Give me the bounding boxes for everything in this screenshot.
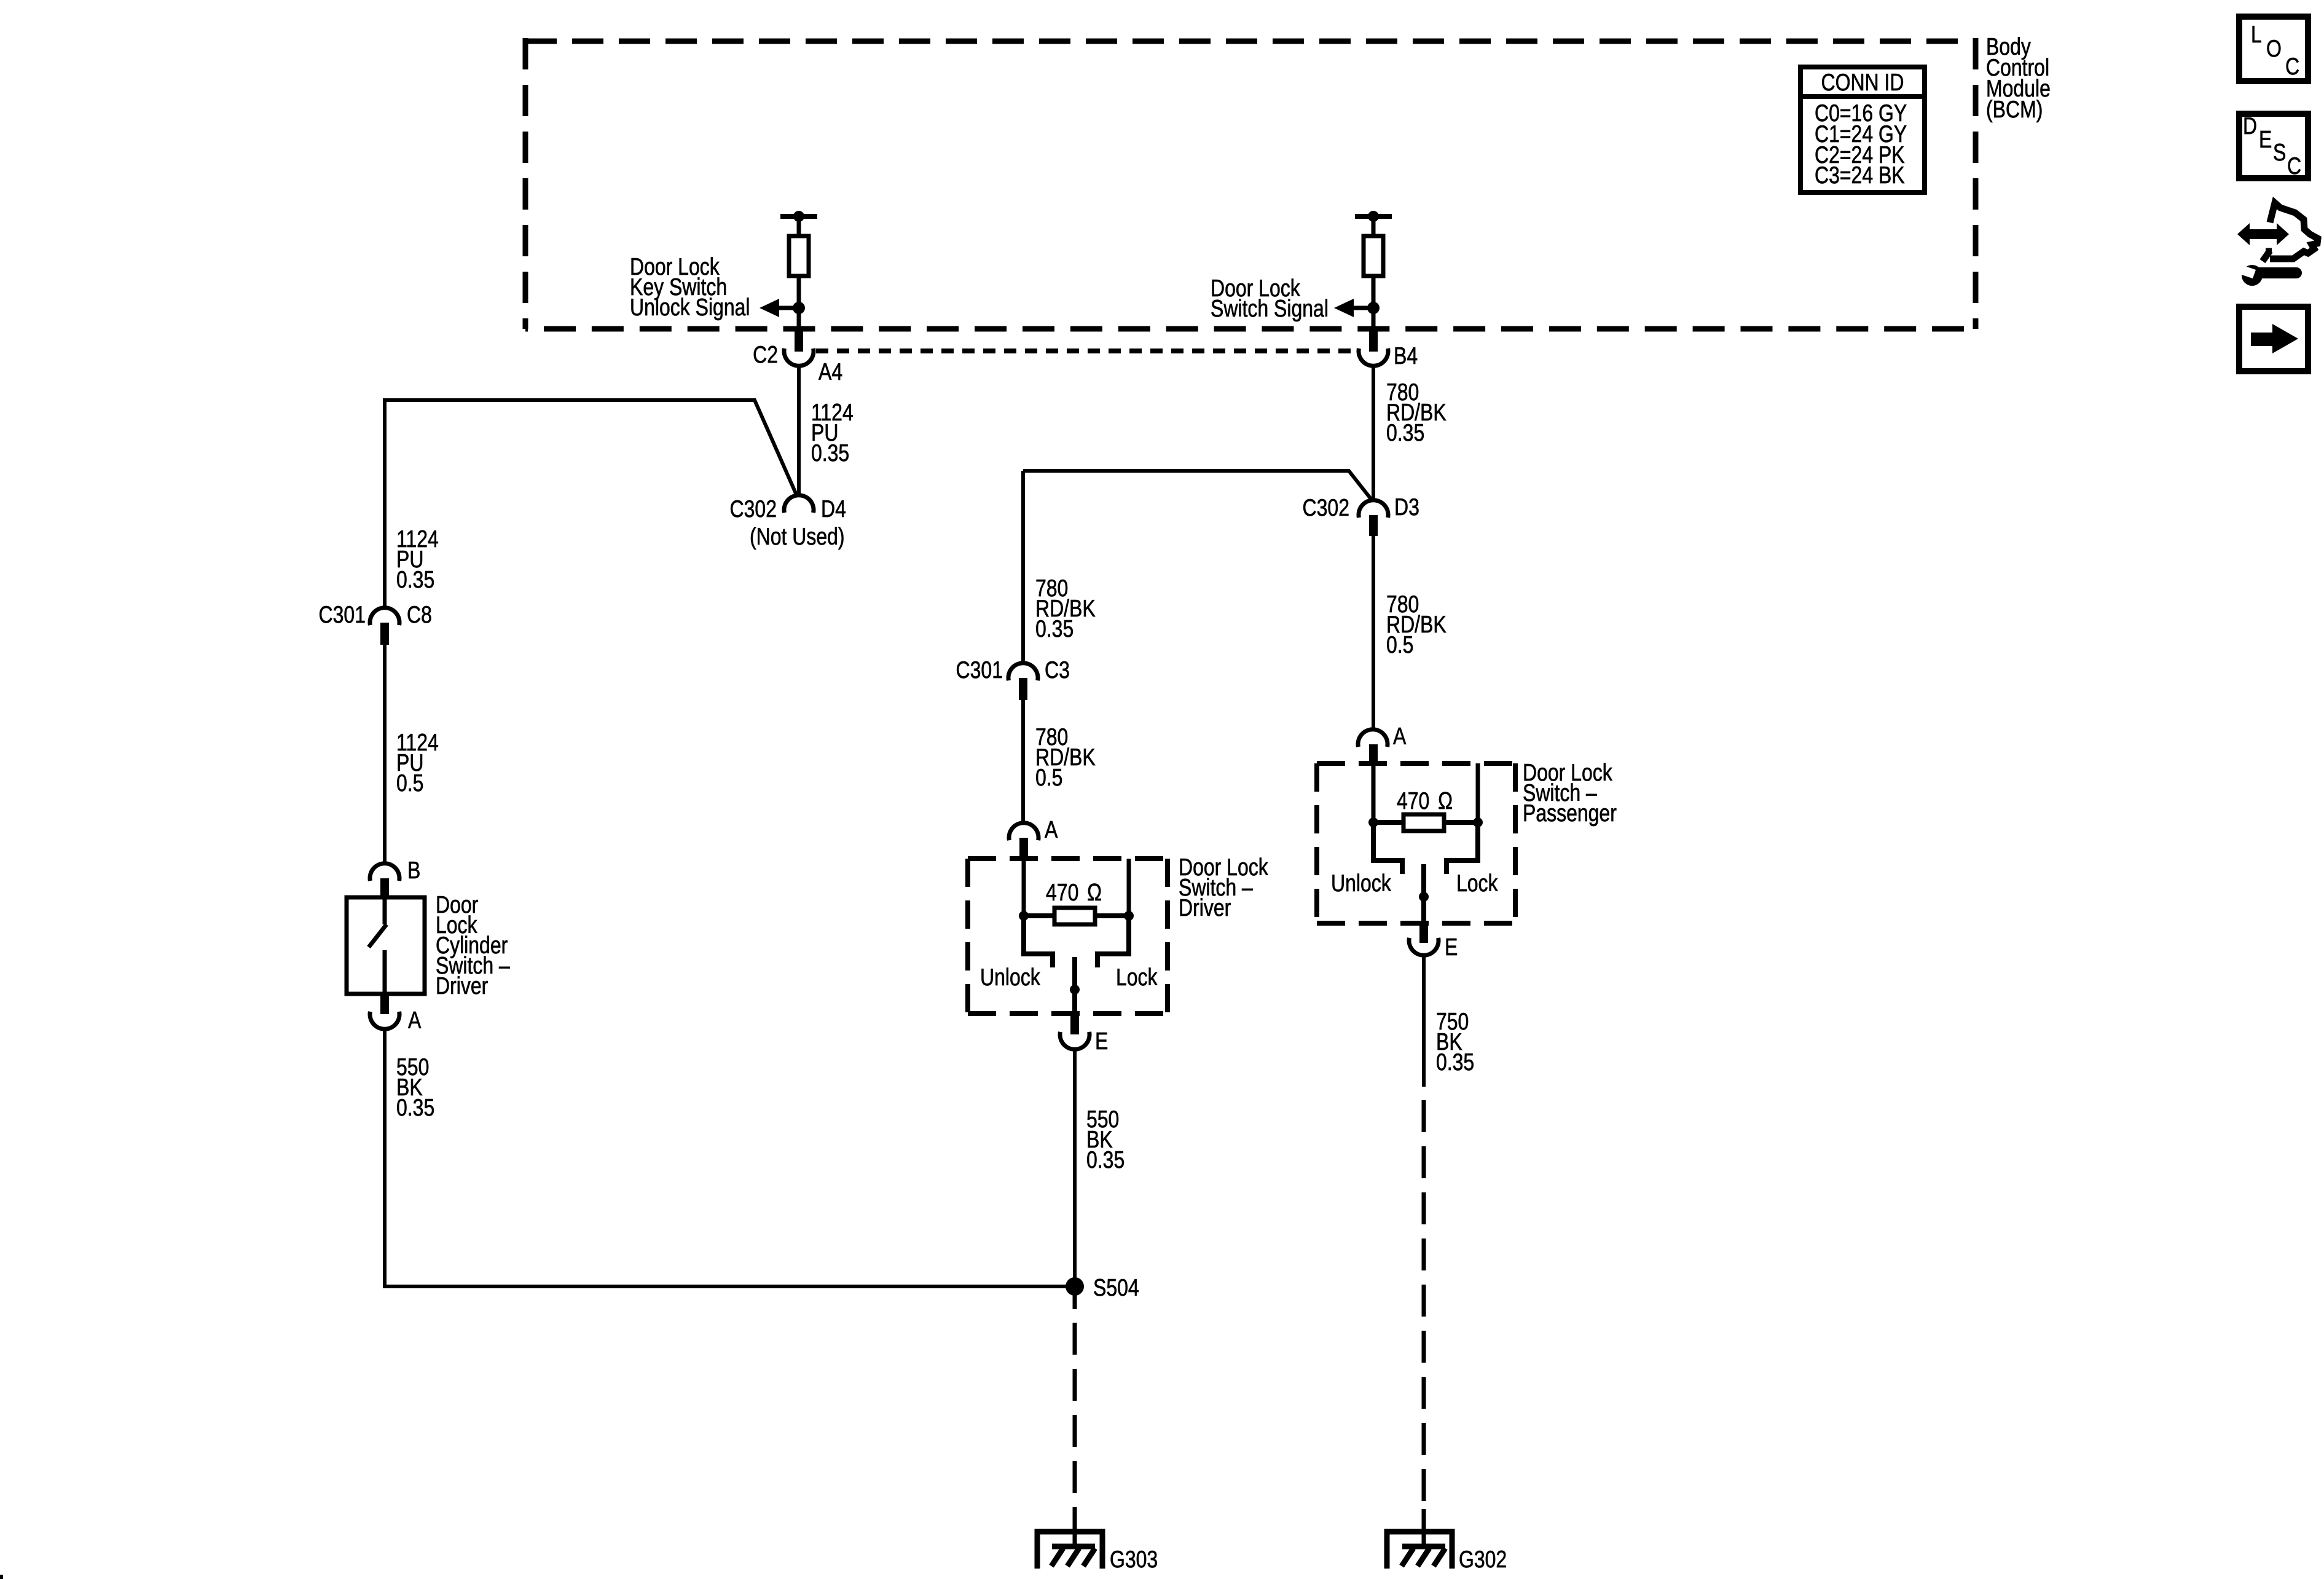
svg-text:Unlock: Unlock — [1331, 870, 1391, 897]
svg-text:A4: A4 — [819, 358, 842, 385]
driver switch pole dot — [1070, 985, 1080, 994]
Door Lock Cylinder Switch - Driver box — [347, 897, 425, 994]
label 1124 PU 0.35 (left wire upper) — [396, 526, 439, 593]
pull-up resistor (Door Lock Key Switch Unlock Signal) inside BCM — [779, 216, 817, 328]
right-arrow reference box icon — [2239, 307, 2308, 371]
pin A below cylinder switch — [380, 994, 389, 1014]
svg-text:Switch Signal: Switch Signal — [1211, 295, 1329, 322]
svg-text:C3=24 BK: C3=24 BK — [1815, 162, 1905, 189]
wire 780 RD/BK 0.35 left vertical to C301 C3 — [1021, 471, 1025, 664]
svg-text:D: D — [2243, 112, 2257, 140]
pin B into cylinder switch — [380, 878, 389, 897]
svg-text:D3: D3 — [1394, 494, 1419, 521]
svg-text:B4: B4 — [1394, 342, 1418, 369]
svg-text:0.35: 0.35 — [396, 566, 434, 593]
svg-text:470 Ω: 470 Ω — [1046, 879, 1102, 906]
label Door Lock Cylinder Switch - Driver — [436, 891, 510, 999]
cylinder switch blade — [369, 924, 387, 947]
svg-text:0.35: 0.35 — [396, 1094, 434, 1121]
pin E below driver switch — [1070, 1014, 1079, 1034]
connector C301 C8 pin — [380, 623, 389, 645]
arrowhead Door Lock Key Switch Unlock Signal — [760, 299, 779, 317]
driver switch left leg — [1022, 859, 1026, 916]
wire driver switch circuit: across and diagonal into C302 D3 — [1023, 471, 1372, 500]
label Door Lock Switch Signal — [1211, 275, 1329, 322]
svg-text:0.35: 0.35 — [811, 439, 849, 467]
label Door Lock Switch - Driver — [1179, 854, 1268, 921]
svg-text:G303: G303 — [1110, 1546, 1158, 1573]
terminal E cup of driver switch — [1060, 1032, 1089, 1049]
label 780 RD/BK 0.35 (driver) — [1035, 575, 1096, 642]
terminal E cup of passenger switch — [1409, 938, 1439, 955]
Door Lock Switch - Driver dashed box — [968, 859, 1168, 1014]
svg-text:Lock: Lock — [1456, 870, 1498, 897]
driver switch bus dots — [1019, 911, 1029, 921]
junction dot left arrow — [793, 302, 805, 314]
svg-text:A: A — [1045, 816, 1058, 843]
wire 1124 PU 0.35 from A4 down to C302 D4 — [797, 366, 801, 497]
svg-text:0.35: 0.35 — [1386, 419, 1424, 446]
wire 750 BK 0.35 from passenger E — [1422, 955, 1426, 1087]
dashed wire to G302 — [1422, 1100, 1426, 1509]
label 550 BK 0.35 (left) — [396, 1053, 434, 1121]
splice S504 — [1066, 1277, 1084, 1296]
svg-text:G302: G302 — [1459, 1546, 1507, 1573]
pull-up resistor (Door Lock Switch Signal) inside BCM — [1354, 216, 1392, 328]
wire 550 BK 0.35 from driver E to S504 — [1073, 1049, 1077, 1286]
label Door Lock Key Switch Unlock Signal — [630, 253, 750, 321]
svg-text:0.35: 0.35 — [1035, 615, 1074, 642]
cylinder switch contact lower — [383, 950, 387, 994]
wire stub into G302 — [1422, 1509, 1426, 1547]
connector C302 terminal D4 dome (not used) — [784, 495, 814, 513]
label 780 RD/BK 0.5 (driver) — [1035, 723, 1096, 791]
svg-text:O: O — [2266, 35, 2282, 62]
driver switch lock contact — [1097, 916, 1129, 967]
connector C302 D3 pin — [1369, 515, 1378, 536]
svg-text:A: A — [408, 1007, 422, 1034]
BCM module dashed box — [525, 38, 1976, 329]
svg-text:0.35: 0.35 — [1086, 1146, 1125, 1173]
svg-text:C2: C2 — [753, 341, 778, 368]
svg-text:0.35: 0.35 — [1436, 1049, 1474, 1076]
connector C301 terminal C8 dome — [370, 608, 399, 625]
DESC reference box icon — [2239, 112, 2308, 179]
dashed wire S504 to G303 — [1073, 1286, 1077, 1309]
svg-text:E: E — [1095, 1028, 1108, 1055]
svg-text:Driver: Driver — [1179, 894, 1231, 921]
svg-text:E: E — [1445, 934, 1458, 961]
label Door Lock Switch - Passenger — [1523, 759, 1617, 827]
wire 780 RD/BK 0.5 from D3 to passenger switch A — [1372, 536, 1375, 730]
svg-text:C: C — [2285, 53, 2299, 80]
svg-text:E: E — [2259, 126, 2272, 153]
svg-text:C302: C302 — [1303, 494, 1349, 521]
svg-text:Unlock: Unlock — [980, 964, 1040, 991]
node dot on T-bar left — [793, 211, 804, 222]
svg-text:D4: D4 — [821, 495, 846, 522]
svg-text:C301: C301 — [956, 656, 1003, 683]
wrench — [2242, 265, 2263, 286]
cylinder switch contact upper — [383, 897, 387, 924]
connector C2 terminal A4 cup — [784, 348, 814, 366]
svg-text:S504: S504 — [1093, 1274, 1139, 1301]
passenger switch lock contact — [1447, 822, 1478, 874]
svg-text:A: A — [1393, 723, 1407, 750]
connector C301 C3 pin — [1019, 678, 1027, 700]
passenger switch right leg — [1476, 763, 1480, 822]
passenger switch pole — [1421, 864, 1426, 923]
label 750 BK 0.35 — [1436, 1008, 1474, 1076]
driver switch resistor 470 ohm — [1054, 908, 1095, 924]
svg-text:CONN ID: CONN ID — [1821, 69, 1904, 96]
svg-text:Unlock Signal: Unlock Signal — [630, 294, 750, 321]
svg-text:(Not Used): (Not Used) — [750, 523, 845, 550]
wire 550 BK 0.35 from cylinder A down and across to S504 — [385, 1028, 1072, 1286]
connector C302 terminal D3 dome — [1359, 500, 1388, 518]
double arrow — [2237, 223, 2289, 245]
svg-text:0.5: 0.5 — [1035, 764, 1062, 791]
connector C2 pin (BCM side) — [795, 328, 803, 352]
svg-text:C3: C3 — [1045, 656, 1070, 683]
wire 780 RD/BK 0.5 from C3 to driver switch A — [1021, 700, 1025, 824]
ground G303 — [1037, 1532, 1102, 1569]
driver switch right leg — [1127, 859, 1131, 916]
ground G302 — [1387, 1532, 1452, 1569]
terminal A dome of driver door lock switch — [1009, 823, 1038, 840]
svg-text:0.5: 0.5 — [1386, 631, 1413, 658]
terminal A cup of cylinder switch — [370, 1012, 399, 1029]
LOC reference box icon — [2239, 17, 2308, 81]
driver switch bus — [1024, 913, 1054, 918]
diagnostic dog-head and wrench icon — [2237, 203, 2318, 286]
passenger switch bus — [1373, 820, 1403, 825]
label 1124 PU 0.5 — [396, 729, 439, 797]
svg-text:470 Ω: 470 Ω — [1397, 787, 1453, 814]
wire 1124 PU 0.5 from C8 to cylinder switch B — [383, 645, 387, 864]
terminal A dome of passenger door lock switch — [1358, 730, 1388, 747]
svg-text:C302: C302 — [730, 495, 777, 522]
svg-text:0.5: 0.5 — [396, 770, 423, 797]
svg-text:Lock: Lock — [1116, 964, 1158, 991]
svg-text:S: S — [2273, 139, 2286, 166]
node dot on T-bar right — [1368, 211, 1379, 222]
svg-text:Passenger: Passenger — [1523, 800, 1617, 827]
passenger switch bus dots — [1368, 817, 1378, 827]
driver switch pole — [1072, 957, 1077, 1014]
junction dot right arrow — [1367, 302, 1380, 314]
passenger switch pole dot — [1419, 892, 1429, 902]
label 780 RD/BK 0.5 (passenger) — [1386, 591, 1447, 658]
stray mark bottom-left — [0, 1575, 3, 1579]
passenger switch resistor 470 ohm — [1403, 814, 1444, 831]
svg-text:C301: C301 — [319, 601, 366, 628]
CONN ID table — [1800, 67, 1925, 192]
terminal B dome of cylinder switch — [370, 864, 399, 881]
connector B4 pin (BCM side) — [1369, 328, 1378, 352]
svg-text:C: C — [2287, 152, 2301, 179]
wire 780 RD/BK 0.35 from B4 down to C302 D3 — [1372, 366, 1375, 502]
svg-text:Driver: Driver — [436, 972, 488, 999]
Door Lock Switch - Passenger dashed box — [1317, 763, 1515, 923]
label 780 RD/BK 0.35 (B4 segment) — [1386, 379, 1447, 446]
svg-text:B: B — [407, 857, 420, 884]
svg-text:(BCM): (BCM) — [1986, 96, 2043, 123]
wire key switch circuit: from C302 D4 up-left, across, down left side, along bottom to S504 — [385, 400, 797, 608]
arrowhead Door Lock Switch Signal — [1334, 299, 1354, 317]
label 550 BK 0.35 (center) — [1086, 1106, 1125, 1173]
pin A into passenger switch box — [1369, 744, 1378, 764]
pin A into driver switch box — [1019, 838, 1028, 859]
connector C301 terminal C3 dome — [1008, 663, 1038, 680]
in-line connector dotted line C2 to B4 — [816, 348, 1356, 353]
passenger switch unlock contact — [1373, 822, 1402, 874]
label 1124 PU 0.35 (A4 segment) — [811, 399, 854, 467]
svg-text:C8: C8 — [407, 601, 432, 628]
passenger switch left leg — [1372, 763, 1376, 822]
driver switch unlock contact — [1024, 916, 1053, 967]
label Body Control Module (BCM) — [1986, 33, 2051, 123]
pin E below passenger switch — [1419, 923, 1428, 943]
svg-text:L: L — [2251, 21, 2262, 48]
connector B4 terminal cup — [1359, 348, 1388, 366]
wire stub into G303 — [1073, 1509, 1077, 1547]
